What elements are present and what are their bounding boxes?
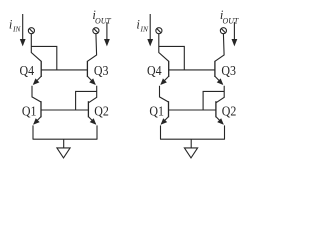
wire: Q1/Q2 base rail up to Q2 collector node (right): [203, 91, 224, 110]
svg-text:OUT: OUT: [95, 16, 111, 25]
wire: input terminal down to Q4 collector (right): [159, 33, 169, 61]
current arrow i_IN (left): [22, 14, 24, 41]
wire: Q2 emitter down to ground rail (left): [96, 125, 98, 139]
wire: base rail Q4-Q3 (left): [41, 69, 87, 71]
svg-text:Q1: Q1: [22, 104, 37, 119]
wire: ground rail (left): [33, 138, 98, 140]
ground symbol (right): [190, 139, 192, 148]
wire: Q4 emitter to Q1 collector (right): [160, 86, 169, 102]
wire: diode connection, input node to base rail (left): [31, 46, 57, 70]
svg-text:Q3: Q3: [94, 63, 109, 78]
wire: Q1/Q2 base rail up to Q2 collector node (left): [76, 91, 97, 110]
transistor Q4 (right): [168, 61, 170, 77]
transistor Q3 (right): [214, 61, 216, 77]
input terminal node (left): [28, 28, 34, 34]
transistor Q2 (left): [87, 101, 89, 117]
output terminal node (right): [220, 28, 226, 34]
transistor Q1 (left): [40, 101, 42, 117]
current arrow i_IN (right): [149, 14, 151, 41]
transistor Q1 (right): [168, 101, 170, 117]
svg-text:Q4: Q4: [147, 63, 162, 78]
ground symbol (left): [63, 139, 65, 148]
transistor Q4 (left): [40, 61, 42, 77]
wire: Q4 emitter to Q1 collector (left): [32, 86, 41, 102]
wire: Q1 emitter down to ground rail (right): [160, 125, 162, 139]
svg-text:Q1: Q1: [149, 104, 164, 119]
wire: Q3 emitter to Q2 collector (left): [88, 86, 96, 103]
wire: Q1 emitter down to ground rail (left): [32, 125, 34, 139]
svg-text:Q2: Q2: [222, 104, 237, 119]
wire: diode connection, input node to base rail (right): [159, 46, 185, 70]
wire: output terminal down to Q3 collector (left): [87, 33, 96, 61]
svg-text:Q4: Q4: [20, 63, 35, 78]
wire: base rail Q1-Q2 (left): [41, 109, 88, 111]
svg-text:Q3: Q3: [221, 63, 236, 78]
current arrow i_OUT (right): [233, 22, 235, 40]
svg-text:OUT: OUT: [223, 16, 239, 25]
wire: base rail Q4-Q3 (right): [169, 69, 215, 71]
transistor Q2 (right): [215, 101, 217, 117]
wire: input terminal down to Q4 collector (left): [31, 33, 41, 61]
wire: output terminal down to Q3 collector (right): [215, 33, 224, 61]
input terminal node (right): [156, 28, 162, 34]
svg-text:IN: IN: [12, 24, 21, 33]
transistor Q3 (left): [86, 61, 88, 77]
wire: Q2 emitter down to ground rail (right): [224, 125, 226, 139]
output terminal node (left): [93, 28, 99, 34]
right cascode current mirror circuit: [136, 8, 238, 158]
current arrow i_OUT (left): [106, 22, 108, 40]
wire: base rail Q1-Q2 (right): [169, 109, 216, 111]
wire: Q3 emitter to Q2 collector (right): [216, 86, 224, 103]
wire: ground rail (right): [160, 138, 225, 140]
left cascode current mirror circuit: [9, 8, 111, 158]
svg-text:IN: IN: [140, 24, 149, 33]
svg-text:Q2: Q2: [94, 104, 109, 119]
